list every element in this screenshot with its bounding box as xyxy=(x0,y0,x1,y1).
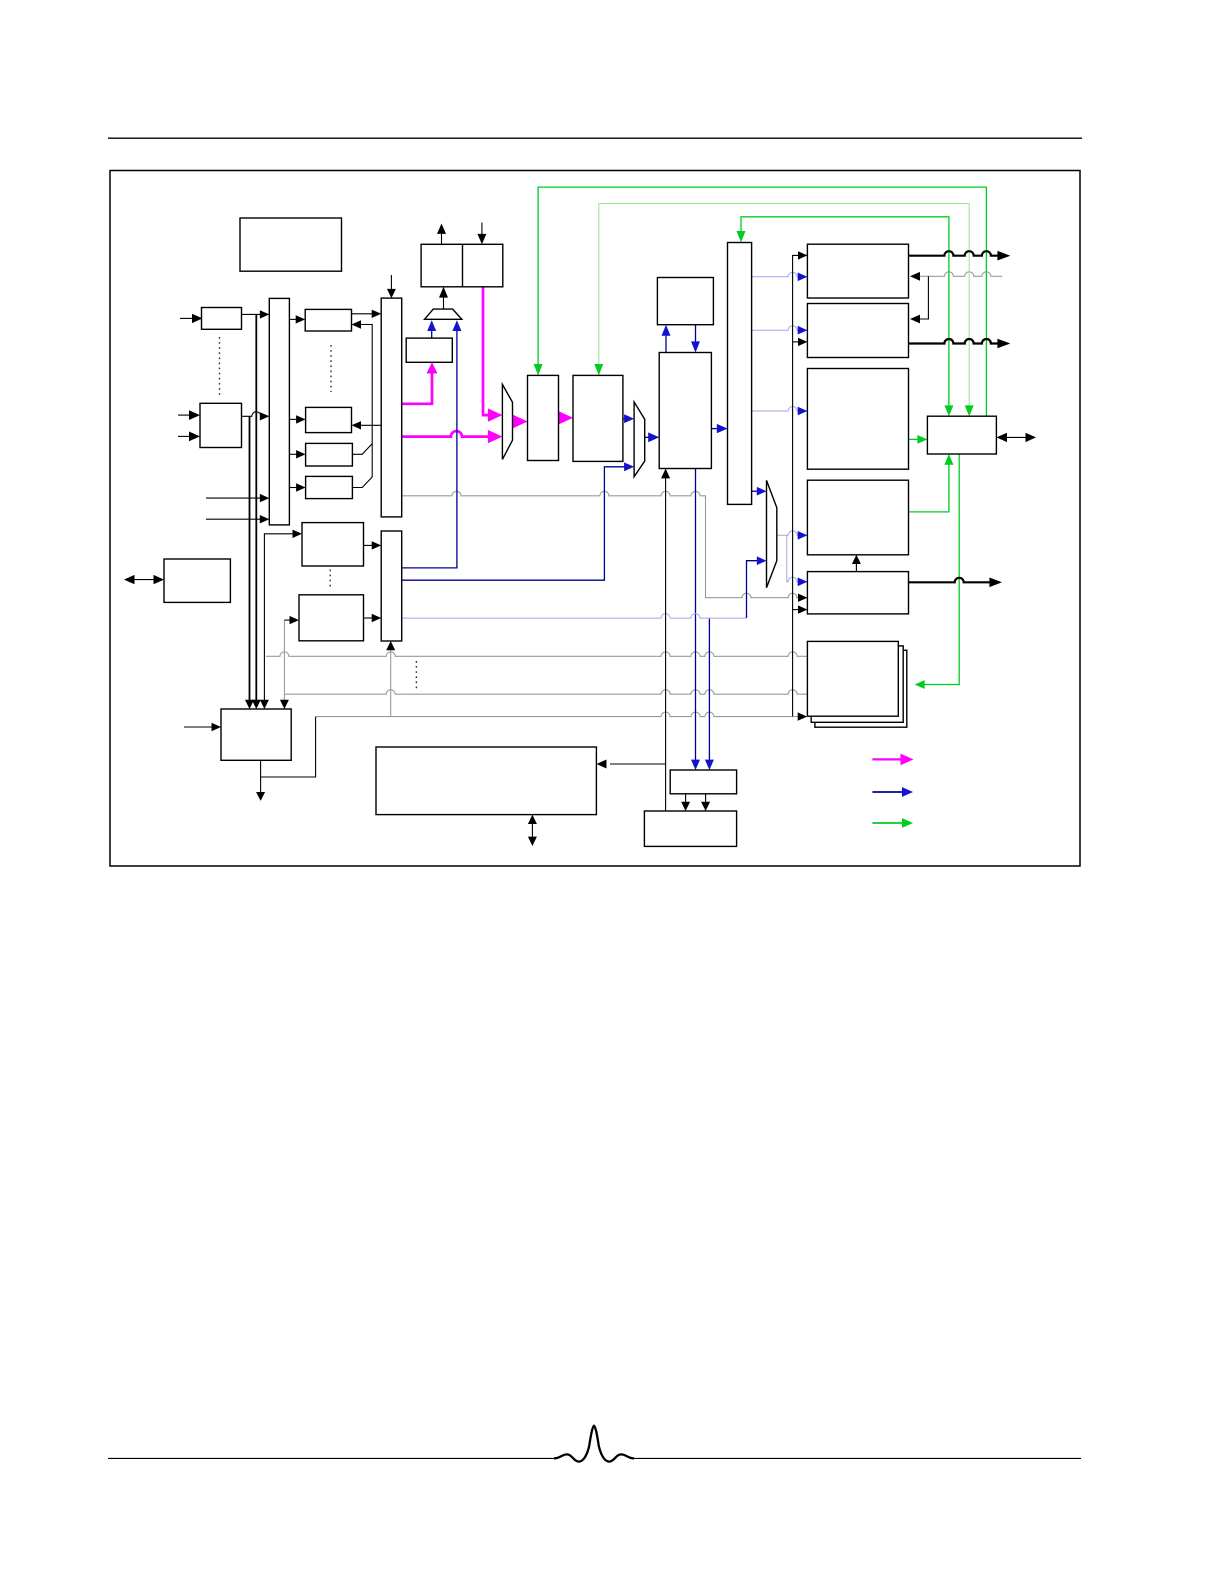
arrowhead: bar A to reg2 xyxy=(296,315,306,323)
wire: timer1 box to bar C xyxy=(364,617,373,619)
wire: control logic input xyxy=(184,726,213,728)
arrowhead: blue into port mux y491 xyxy=(757,487,767,496)
wire: reg2 to bar B xyxy=(352,313,373,315)
box: PORT5 xyxy=(807,572,908,614)
wire: pale blue PC bar to PORT1 xyxy=(752,272,799,277)
bar C: lower vertical bus bar xyxy=(381,531,402,641)
arrowhead: down above two-cell right xyxy=(477,234,486,244)
wire: magenta from PC latch down to data mux xyxy=(483,287,489,415)
wire: arrow into wide decode box right edge xyxy=(610,763,666,765)
arrowhead: elbow into timer0 xyxy=(293,530,303,538)
arrowhead: bar B to option (left-pointing) xyxy=(352,421,362,429)
wire: pale blue port mux to PORT4 and PORT5 xyxy=(777,531,799,536)
wire: blue W to W mux xyxy=(623,418,626,420)
wire: data bus mid (y 656) xyxy=(266,652,807,657)
arrowhead: bus into PORT2 xyxy=(798,338,807,346)
arrowheads: bar A to timer regs xyxy=(296,450,306,458)
thick device pin buses xyxy=(909,251,999,582)
arrowhead: blue down into timing box x695 xyxy=(691,760,700,770)
wire: green from PORT3 to OSC box xyxy=(909,438,920,440)
arrowhead: osc bidirectional left xyxy=(996,433,1007,442)
outer diagram border xyxy=(110,171,1080,867)
box: timer1 xyxy=(299,595,364,641)
wire: shaft of up arrow above two-cell box xyxy=(441,233,443,244)
box: option reg xyxy=(306,407,352,432)
wire: control logic bottom tee xyxy=(261,717,316,777)
bar B: middle vertical bus bar xyxy=(381,298,402,517)
wire: green from OSC box bottom down to peripherals xyxy=(924,454,959,685)
box: device features (top left) xyxy=(240,218,342,271)
arrowhead: gray return into PORT1 (left) xyxy=(910,272,920,281)
arrowhead: blue into PORT2 xyxy=(798,326,808,335)
wire: black vertical internal bus x792.6 xyxy=(793,255,808,716)
arrowheads: timing box to osc pins box xyxy=(681,802,690,811)
box: interrupt logic xyxy=(200,403,242,447)
wire: blue bar C to W mux via x604 xyxy=(402,467,626,580)
wire: gray vertical from interrupt line (x 284.4) xyxy=(283,620,285,701)
wire: interrupt output to bar A with hop xyxy=(242,412,262,417)
wire: gray return line from right pins to PORT1 (y 276.3) xyxy=(920,272,1002,277)
box: OSC timing box xyxy=(927,416,996,454)
box: control logic xyxy=(221,709,291,760)
arrowhead: bus into PORT1 xyxy=(798,251,807,259)
mux: port mux trapezoid xyxy=(767,480,777,587)
arrowhead: into wide decode box (left-pointing) xyxy=(596,760,606,769)
arrowhead: blue into PORT5 xyxy=(798,578,808,587)
wire: x284 elbow into timer1 xyxy=(284,619,290,621)
wire: timing box down arrows to osc pins box xyxy=(685,794,687,803)
box: timer0 xyxy=(302,523,364,566)
arrowhead: blue into PORT3 xyxy=(798,407,808,416)
arrowhead: blue into PORT1 xyxy=(798,273,808,282)
arrowhead: blue W mux to RAM xyxy=(648,432,659,442)
bar A: left vertical bus bar xyxy=(269,298,289,525)
bar: program counter tall bar xyxy=(728,243,752,505)
box: two-cell PC latch xyxy=(421,244,503,286)
box: stack xyxy=(657,278,713,325)
arrowhead: up above two-cell left xyxy=(437,224,446,234)
legend: blue arrow xyxy=(872,791,903,793)
arrowhead: gray bus into peripherals xyxy=(798,712,808,720)
arrowheads: wide box bidirectional xyxy=(528,815,537,824)
wire: blue RAM to PC bar xyxy=(711,428,717,430)
wire: pale blue bar C to x746 (y 618) xyxy=(402,614,747,619)
box: PORT4 xyxy=(807,480,908,555)
wire: branch into PORT5 lower xyxy=(793,609,799,611)
wire: blue W mux to RAM box xyxy=(645,436,649,438)
footer rule with logo squiggle xyxy=(108,1457,554,1459)
arrowhead: green up into OSC box bottom xyxy=(944,454,953,465)
wire: blue FSR to addr mux xyxy=(431,331,433,339)
wire: data bus lower (y 694) xyxy=(284,690,807,694)
wire: input lines into bar A xyxy=(206,497,261,499)
box: data memory xyxy=(164,559,230,602)
arrowhead: reg2 to bar B xyxy=(372,310,382,318)
arrowhead: reg1 to bar A xyxy=(260,310,270,318)
arrowhead: interrupt to bar A xyxy=(260,412,270,420)
wire: blue vertical x709.4 to timing box xyxy=(708,618,710,760)
wire: blue elbow x746.5 up to port mux xyxy=(747,561,758,618)
arrowhead: green left into peripherals stack xyxy=(915,680,925,689)
wire: input arrow to instruction reg1 xyxy=(180,317,194,319)
arrowhead: blue into port mux y560 xyxy=(757,556,767,565)
arrowhead: x284 into timer1 xyxy=(290,616,300,624)
arrowhead: magenta into data mux upper xyxy=(488,408,503,421)
box: PORT1 xyxy=(807,244,908,298)
ellipsis between reg2 and option reg xyxy=(330,345,332,392)
wire: bar A to reg2 xyxy=(289,318,296,320)
legend: magenta arrow xyxy=(872,758,902,760)
wire: bar A to option reg xyxy=(289,418,297,420)
arrowhead: blue down into timing box x709 xyxy=(705,760,714,770)
wire: x372 vertical into reg2 xyxy=(360,325,372,478)
wire: pale blue PC bar to PORT2 xyxy=(752,326,799,330)
arrowhead: up into RAM bottom xyxy=(661,469,670,479)
arrowhead: blue up into addr mux left xyxy=(427,320,436,331)
box: RAM file registers xyxy=(659,353,711,469)
mux: address mux trapezoid xyxy=(425,309,462,319)
arrowhead: magenta up into FSR bottom xyxy=(427,362,438,373)
arrowhead: blue up into addr mux right xyxy=(452,320,461,331)
thick instruction-line verticals already drawn; arrowheads black xyxy=(124,224,1036,847)
wire: magenta from bar B to FSR xyxy=(402,373,432,404)
wire: PORT5 output bus xyxy=(909,578,991,583)
arrowhead: input lines to bar A xyxy=(260,494,270,502)
wire: timer0 box to bar C xyxy=(364,544,373,546)
mux: W mux trapezoid xyxy=(634,402,645,477)
arrowhead: blue into PORT4 xyxy=(798,531,808,540)
arrowhead: blue down into RAM top xyxy=(691,341,700,352)
wire: magenta from bar B to data mux (y 436.6) xyxy=(402,431,489,437)
arrowhead: down into bar B top xyxy=(387,289,396,298)
wire: timer reg connectors to x372 xyxy=(352,444,372,455)
wire: green net a - timing to ALU xyxy=(538,187,986,417)
wire: blue stack up arrow shaft xyxy=(665,335,667,352)
arrowhead: blue into W mux lower xyxy=(624,462,634,471)
box: ALU xyxy=(528,375,559,460)
arrowhead: green down into ALU xyxy=(534,364,543,375)
arrowhead: into reg2 right (left-pointing) xyxy=(352,320,362,328)
wire: PORT2 output bus xyxy=(909,339,999,344)
arrowhead: magenta into data mux lower xyxy=(488,430,503,443)
arrowhead: PORT5 bus out xyxy=(989,578,1002,588)
wire: osc box bidirectional pin xyxy=(1007,436,1027,438)
wire: branch vertical x256.3 xyxy=(255,314,257,701)
arrowhead: green down into OSC box (x949) xyxy=(944,405,953,416)
legend: green arrow xyxy=(872,822,903,824)
wire: gray vertical below bar C xyxy=(390,650,392,717)
wire: bar B to option reg (left arrow) xyxy=(360,424,381,426)
box: timing generation xyxy=(670,770,736,794)
arrowhead: into control logic left xyxy=(212,723,222,731)
wire: shaft of down arrow above bar B xyxy=(390,275,392,290)
arrowhead: bus into PORT5 lower xyxy=(798,605,807,613)
arrowhead: osc bidirectional right xyxy=(1026,433,1037,442)
arrowhead: PORT2 bus out xyxy=(997,339,1010,349)
arrowhead: bar A to option xyxy=(296,415,306,423)
arrowhead: control logic down output xyxy=(256,792,265,801)
box: PORT3 xyxy=(807,369,908,470)
arrowhead: blue RAM to PC bar xyxy=(717,424,728,433)
box: W register xyxy=(573,375,623,461)
wire: gray return branch into PORT2 right xyxy=(920,276,928,319)
arrowhead: PORT1 bus out xyxy=(997,251,1010,261)
wire: long blue vertical from addr mux down to bar C xyxy=(402,331,457,568)
box: wide instruction decode xyxy=(376,747,596,815)
arrowhead: branch into PORT2 (left) xyxy=(910,315,920,324)
wire: elbow x264.4 to timer box and control logic xyxy=(264,534,293,702)
wire: shaft of down arrow above two-cell box xyxy=(481,223,483,235)
mux: data mux trapezoid xyxy=(502,384,512,459)
arrowheads: data memory bidirectional xyxy=(124,575,135,584)
arrowhead: interrupt inputs xyxy=(189,410,200,420)
wire: bar A to timer regs xyxy=(289,453,297,455)
arrowhead: into reg1 xyxy=(192,314,203,323)
wire: reg1 output to bar A xyxy=(242,313,262,315)
wire: interrupt box inputs xyxy=(178,414,191,416)
wire: branch into PORT2 xyxy=(793,341,799,343)
box: timer reg B xyxy=(306,476,353,498)
arrowhead: blue into W mux upper xyxy=(624,414,634,423)
arrowhead: green down into OSC box (x969) xyxy=(965,405,974,416)
box: PORT2 xyxy=(807,304,908,358)
box: reg2 xyxy=(305,309,351,331)
box: oscillator pins xyxy=(644,811,736,846)
arrowhead: blue up into stack bottom xyxy=(662,325,671,336)
arrowhead: timer0 to bar C xyxy=(372,541,382,549)
wire: blue PC bar to port mux xyxy=(752,490,758,492)
wire: green net b (pale) - timing to W reg xyxy=(599,204,969,408)
wire: pale blue PC bar to PORT3 xyxy=(752,407,799,412)
ellipsis between timer0 and timer1 xyxy=(329,570,331,590)
header rule xyxy=(108,137,1082,139)
arrowhead: green down into PC bar xyxy=(737,231,746,243)
arrowhead: gray elbow into PORT5 xyxy=(798,594,807,602)
box: FSR reg xyxy=(406,338,452,362)
arrowhead: up into bar C bottom xyxy=(386,641,395,650)
arrowhead: green right into OSC box left xyxy=(917,435,927,444)
wire: PORT1 output bus xyxy=(909,251,999,255)
box: instruction reg1 xyxy=(202,308,242,330)
wire: blue stack down arrow shaft xyxy=(695,325,697,343)
wire: branch vertical x249.5 xyxy=(249,416,251,701)
arrowhead: PORT5 up to PORT4 xyxy=(852,555,861,564)
arrowhead: timer1 to bar C xyxy=(372,614,382,622)
arrowhead: magenta mux to ALU xyxy=(513,415,528,428)
wire: green net c - timing to program counter bar xyxy=(741,217,949,407)
wire: program bus (y 716.6) from control logic elbow to peripherals xyxy=(316,712,799,717)
wire: arrow PORT5 top to PORT4 bottom xyxy=(855,564,857,572)
arrowhead: up into two-cell box from addr mux xyxy=(439,287,448,298)
stacked peripheral sheets xyxy=(815,650,907,727)
wire: bidirectional pin to data memory box xyxy=(133,579,156,581)
arrowhead: magenta ALU to W xyxy=(559,411,574,424)
ellipsis between reg1 and interrupt box xyxy=(219,337,221,396)
wire: blue vertical x695.5 RAM bottom to timing box xyxy=(695,469,697,761)
arrowhead: green down into W xyxy=(594,364,603,375)
arrowheads: four into control logic top xyxy=(245,700,254,709)
box: timer reg A xyxy=(306,443,353,466)
wire: green elbow from PORT4 up to OSC box bottom xyxy=(909,464,949,512)
wire: wide box bidirectional bottom xyxy=(531,823,533,838)
wire: RAM data bus upper (y 496) from bar B to PORT box elbow xyxy=(402,491,799,597)
wire: x665.6 vertical RAM bottom to osc box xyxy=(665,478,667,811)
ellipsis between timer boxes / bus area xyxy=(415,661,417,690)
wire: shaft addr mux to two-cell box xyxy=(443,297,445,309)
